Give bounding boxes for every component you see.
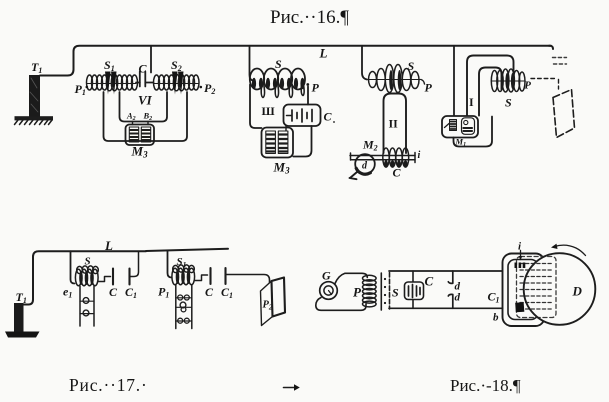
label I (stage I) xyxy=(469,95,474,109)
wire bus end corner (fig16 right) xyxy=(549,46,553,49)
caption Рис. 17 xyxy=(69,375,148,395)
label C1 (fig18) xyxy=(488,290,500,305)
svg-text:P1: P1 xyxy=(75,82,86,97)
label i (stage II) xyxy=(418,150,421,161)
transformer M3 box (stage VI) xyxy=(126,125,155,146)
wire drop to III stage xyxy=(250,46,253,81)
label P (fig18) xyxy=(353,285,362,300)
label C (fig17 right) xyxy=(205,285,214,299)
brush holder outer box (fig18) xyxy=(503,254,545,327)
wire capacitor box left lead (stage III) xyxy=(285,126,287,131)
svg-text:S: S xyxy=(505,96,512,110)
transformer M3 left winding (stage VI) xyxy=(129,127,138,142)
capacitor plate C (fig17 left) xyxy=(112,269,114,285)
bar with coil C (stage II) xyxy=(350,148,415,168)
wire coil right tick (stage II) xyxy=(421,80,425,85)
label III (stage III) xyxy=(262,104,275,118)
label d upper (fig18) xyxy=(455,281,461,293)
antenna T1 (fig17) xyxy=(14,303,24,332)
svg-text:P: P xyxy=(353,285,362,300)
svg-text:P2: P2 xyxy=(204,81,215,96)
coil S (stage II) xyxy=(368,65,421,93)
capacitor C (stage VI) xyxy=(136,72,154,87)
rotation arrow (fig18) xyxy=(551,244,586,256)
label e1 (fig17) xyxy=(63,285,72,300)
svg-text:S: S xyxy=(408,59,415,73)
svg-text:C: C xyxy=(393,166,402,180)
detector tube (fig17 right) xyxy=(176,285,192,329)
coil S (stage I) xyxy=(491,69,525,92)
svg-text:C1: C1 xyxy=(488,290,500,305)
interrupter M2 (stage II) xyxy=(350,154,375,179)
brush contact blob (fig18) xyxy=(515,302,524,312)
core S bars (fig18) xyxy=(381,273,389,311)
wire coil to M3 box (stage III) xyxy=(250,85,262,129)
svg-text:Рис.··17.·: Рис.··17.· xyxy=(69,375,148,395)
galvanometer G (fig18) xyxy=(320,282,338,300)
label S (stage III) xyxy=(275,57,282,71)
capacitor box C (stage III) xyxy=(284,105,321,127)
svg-text:Рис.·-18.¶: Рис.·-18.¶ xyxy=(450,376,521,395)
svg-text:P1: P1 xyxy=(158,285,169,300)
svg-text:C: C xyxy=(324,110,333,124)
svg-text:B2: B2 xyxy=(143,111,153,123)
svg-text:P: P xyxy=(425,81,433,95)
svg-text:A2: A2 xyxy=(126,111,136,123)
label C (stage II) xyxy=(393,166,402,180)
svg-text:C: C xyxy=(205,285,214,299)
contact ticks (fig18) xyxy=(515,263,526,269)
svg-text:C: C xyxy=(425,274,434,289)
label d lower (fig18) xyxy=(455,292,461,304)
arrow marker xyxy=(284,384,300,390)
wire P down to capacitor box (stage III) xyxy=(307,87,309,105)
svg-text:P: P xyxy=(312,81,320,95)
label S1 (stage VI) xyxy=(104,58,115,73)
label C (stage III) xyxy=(324,110,335,124)
svg-text:M3: M3 xyxy=(273,160,291,176)
caption Рис. 16 xyxy=(270,7,349,28)
label S (stage II) xyxy=(408,59,415,73)
ground (fig16) xyxy=(15,116,54,124)
brush holder inner box (fig18) xyxy=(508,260,538,320)
lead B2 (stage VI) xyxy=(147,122,149,125)
wire G to coil bottom (fig18) xyxy=(316,298,366,311)
label i with arrow (fig18) xyxy=(519,251,523,261)
capacitor plate C (fig17 right) xyxy=(209,268,211,284)
dashed wire P to plate (stage I) xyxy=(531,79,559,90)
label VI (stage VI) xyxy=(138,93,153,108)
transformer M1 box (stage I) xyxy=(442,116,478,138)
label C (fig18) xyxy=(425,274,434,289)
capacitor plate C1 (fig17 left) xyxy=(128,269,130,285)
transformer M3 box (stage III) xyxy=(262,128,294,158)
svg-text:T1: T1 xyxy=(31,60,42,75)
label M3 (stage VI) xyxy=(131,144,149,160)
svg-text:Ш: Ш xyxy=(262,104,275,118)
plate P2 front sheet (fig17) xyxy=(261,281,273,326)
tube II (stage II) xyxy=(384,94,407,154)
plate P2 back sheet (fig17) xyxy=(272,278,286,317)
coil S2 (stage VI) xyxy=(154,72,200,95)
svg-text:Рис.··16.¶: Рис.··16.¶ xyxy=(270,7,349,28)
capacitor C branch (fig18) xyxy=(405,271,424,308)
svg-text:VI: VI xyxy=(138,93,153,108)
spark gap d-d (fig18) xyxy=(448,271,453,308)
label C (fig17 left) xyxy=(109,285,118,299)
label G (fig18) xyxy=(322,269,331,283)
svg-text:b: b xyxy=(493,312,499,324)
label L (fig17) xyxy=(104,238,113,253)
coil S (fig17 left) xyxy=(75,266,98,286)
svg-text:C: C xyxy=(109,285,118,299)
label C1 (fig17 right) xyxy=(221,285,233,300)
label M2 (stage II) xyxy=(362,138,378,153)
label T1 (fig17) xyxy=(16,290,27,305)
wire G to coil top (fig18) xyxy=(335,273,367,283)
disk D outline (fig18) xyxy=(524,253,596,325)
wire coil to C (fig17 left) xyxy=(98,277,111,282)
coil P (fig18) xyxy=(363,275,377,307)
ground (fig17) xyxy=(5,332,40,338)
svg-text:D: D xyxy=(572,284,583,299)
coil S1 (fig17 right) xyxy=(172,265,195,285)
line L right part (fig17) xyxy=(146,249,228,251)
transformer M3 left winding (stage III) xyxy=(266,131,276,154)
wire oscillator loop top (fig18) xyxy=(389,270,503,272)
label P (stage II) xyxy=(425,81,433,95)
svg-text:d: d xyxy=(455,292,461,304)
detector tube (fig17 left) xyxy=(80,286,94,326)
coil S (stage III) xyxy=(250,69,305,98)
label T1 (fig16) xyxy=(31,60,42,75)
wire antenna to line L (fig17) xyxy=(24,251,147,304)
dashed window box (fig18) xyxy=(517,257,557,318)
svg-text:C: C xyxy=(139,62,148,76)
antenna T1 (fig16) xyxy=(29,75,40,117)
svg-text:G: G xyxy=(322,269,331,283)
wire drop to e1 (fig17) xyxy=(71,251,75,283)
wire coil to C (fig17 right) xyxy=(195,275,208,281)
label L (fig16) xyxy=(319,46,328,61)
label P1 (stage VI) xyxy=(75,82,89,97)
label P2 (fig17) xyxy=(263,300,273,312)
label S (stage I) xyxy=(505,96,512,110)
label S (fig18) xyxy=(392,286,399,300)
svg-text:C1: C1 xyxy=(125,285,137,300)
svg-text:S: S xyxy=(85,256,91,268)
disk D white mask (fig18) xyxy=(524,253,596,325)
svg-text:L: L xyxy=(319,46,328,61)
svg-text:II: II xyxy=(389,117,399,131)
wire bottom U below M1 (stage I) xyxy=(454,117,493,147)
svg-text:S: S xyxy=(392,286,399,300)
svg-text:S1: S1 xyxy=(104,58,115,73)
label d (inside M2) xyxy=(362,161,368,172)
transformer M3 right winding (stage VI) xyxy=(141,127,150,142)
transformer M3 right winding (stage III) xyxy=(278,131,288,154)
svg-text:e1: e1 xyxy=(63,285,72,300)
wire C1 to plate P2 (fig17) xyxy=(226,275,270,283)
label M3 (stage III) xyxy=(273,160,291,176)
capacitor plate C1 (fig17 right) xyxy=(224,268,226,284)
svg-text:M2: M2 xyxy=(362,138,378,153)
dashed stub from bus end (stage I) xyxy=(553,58,567,65)
label S2 (stage VI) xyxy=(171,58,182,73)
label S1 (fig17 right) xyxy=(177,256,187,269)
lead A2 (stage VI) xyxy=(132,122,134,125)
wire outer loop (stage VI) xyxy=(104,92,188,141)
label II (stage II) xyxy=(389,117,399,131)
wire drop to S1 (fig17 right) xyxy=(168,251,172,278)
caption Рис. 18 xyxy=(450,376,521,395)
label M1 (stage I) xyxy=(455,137,467,149)
svg-text:L: L xyxy=(104,238,113,253)
wire C1 to line L (fig17 left) xyxy=(130,251,139,276)
label D (fig18) xyxy=(572,284,583,299)
svg-text:d: d xyxy=(362,161,368,172)
label P (stage III) xyxy=(306,81,319,95)
svg-text:T1: T1 xyxy=(16,290,27,305)
label P (stage I) xyxy=(525,81,532,92)
wire drop to II stage xyxy=(362,46,367,80)
plate electrode (stage I right) xyxy=(553,90,575,138)
wire middle loop (stage VI) xyxy=(120,92,168,122)
label B2 (stage VI) xyxy=(143,111,153,123)
wire capacitor box to M3 (stage III) xyxy=(293,126,311,157)
tube I outer bend (stage I) xyxy=(467,56,514,116)
svg-text:P: P xyxy=(525,81,532,92)
svg-text:S: S xyxy=(275,57,282,71)
label A2 (stage VI) xyxy=(126,111,136,123)
svg-text:I: I xyxy=(469,95,474,109)
coil S1 (stage VI) xyxy=(87,72,138,95)
wire drop to VI stage xyxy=(150,46,152,73)
svg-text:C1: C1 xyxy=(221,285,233,300)
label S (fig17 left) xyxy=(85,256,91,268)
label P2 (stage VI) xyxy=(200,81,216,96)
svg-text:i: i xyxy=(418,150,421,161)
svg-text:S2: S2 xyxy=(171,58,182,73)
tube I inner bend (stage I) xyxy=(479,68,502,116)
label b (fig18) xyxy=(493,312,499,324)
label C (stage VI) xyxy=(139,62,148,76)
svg-text:i: i xyxy=(518,241,522,253)
label P1 (fig17 right) xyxy=(158,285,169,300)
label C1 (fig17 left) xyxy=(125,285,137,300)
wire oscillator loop bottom (fig18) xyxy=(389,307,503,309)
wire drop to I stage xyxy=(453,46,455,116)
wire antenna to top line L (fig16) xyxy=(40,46,551,76)
hatch rows in window (fig18) xyxy=(520,264,553,310)
